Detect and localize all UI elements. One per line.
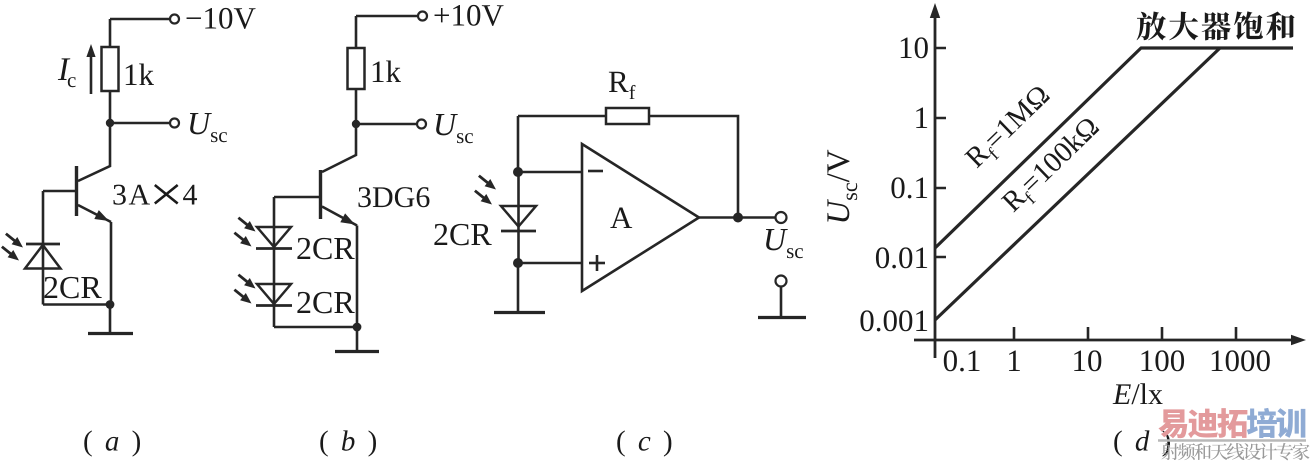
transistor Q2 emitter with arrow [322, 207, 357, 226]
svg-text:( a ): ( a ) [83, 426, 144, 458]
photodiode 2CR upper cathode bar [256, 247, 292, 250]
node: collector output node (panel a) [106, 119, 114, 127]
photodiode 2CR upper (panel b) triangle [257, 227, 291, 247]
transistor Q1 3AX4 base bar [75, 166, 78, 216]
wire: base lead (panel b) [274, 196, 321, 199]
wire: base down to photodiode [42, 191, 45, 305]
wire: op-amp output [699, 216, 776, 219]
svg-text:+10V: +10V [433, 0, 504, 33]
label: 3AX4 transistor type [112, 179, 198, 212]
svg-text:1k: 1k [370, 54, 402, 89]
wire: emitter vertical (panel a) [110, 222, 113, 305]
wire: photodiode to bottom rail (panel a) [43, 303, 110, 306]
transistor Q1 emitter with arrow [78, 205, 111, 222]
svg-text:−10V: −10V [185, 1, 256, 36]
node: emitter/bottom junction (panel b) [353, 323, 362, 332]
watermark tagline RF and antenna design experts [1162, 443, 1310, 460]
svg-text:1: 1 [914, 100, 930, 135]
node: non-inverting input node [513, 258, 523, 268]
photodiode 2CR (panel a) cathode bar [26, 243, 60, 246]
photodiode 2CR (panel c) triangle [501, 206, 536, 227]
node: output/feedback junction [733, 213, 743, 223]
wire: to Usc terminal (panel b) [356, 123, 417, 126]
svg-text:10: 10 [898, 30, 929, 65]
node: collector output node (panel b) [352, 120, 360, 128]
svg-text:( c ): ( c ) [616, 426, 675, 458]
ground (panel b) [335, 327, 379, 352]
ground (panel a) [88, 305, 133, 334]
wire: base down to photodiode 1 [273, 197, 276, 327]
watermark underline [1158, 439, 1306, 442]
transistor Q2 3DG6 base bar [319, 170, 322, 219]
svg-text:2CR: 2CR [296, 284, 355, 320]
svg-text:100: 100 [1139, 343, 1186, 378]
axis: x axis [914, 335, 1306, 345]
svg-text:10: 10 [1072, 343, 1103, 378]
watermark logo yiditou training [1158, 408, 1305, 438]
wire: feedback top wire right [649, 116, 738, 218]
curve Rf=1M with saturation [935, 48, 1293, 248]
terminal: lower output terminal (panel c) [776, 276, 787, 287]
svg-text:0.01: 0.01 [875, 240, 929, 275]
axis: y axis [930, 3, 940, 358]
wire: non-inverting input lead [518, 262, 582, 265]
terminal: Usc output (panel c) [776, 212, 787, 223]
wire: inverting input lead [518, 171, 582, 174]
op-amp plus input sign [589, 255, 605, 271]
light arrows into 2CR (panel c) [475, 176, 496, 205]
node: emitter/bottom junction (panel a) [106, 300, 115, 309]
terminal: -10V supply terminal [170, 15, 179, 24]
resistor 1k (panel b) [348, 48, 365, 89]
light arrows into lower 2CR (panel b) [234, 275, 255, 304]
photodiode 2CR (panel a) triangle [25, 245, 61, 269]
wire: resistor to output node [109, 91, 112, 123]
svg-text:1: 1 [1006, 343, 1022, 378]
resistor 1k (panel a) [102, 47, 119, 91]
wire: top vertical to resistor [109, 19, 112, 47]
wire: left vertical into inverting node [517, 116, 520, 172]
label: amplifier saturation (Chinese) [1137, 11, 1295, 40]
photodiode 2CR (panel c) cathode bar [501, 230, 536, 233]
svg-text:1k: 1k [123, 57, 155, 92]
wire: collector lead (panel b) [322, 124, 356, 172]
light arrows into 2CR (panel a) [2, 234, 23, 261]
wire: feedback top wire left [518, 115, 606, 118]
op-amp U1 triangle [582, 144, 699, 291]
svg-text:A: A [610, 200, 633, 235]
svg-text:E/lx: E/lx [1112, 378, 1163, 411]
svg-text:0.001: 0.001 [859, 303, 929, 338]
ground (panel c left) [494, 263, 545, 313]
current arrow Ic [86, 44, 95, 94]
resistor Rf [606, 108, 649, 124]
svg-text:0.1: 0.1 [890, 170, 929, 205]
terminal: Usc output (panel a) [170, 119, 179, 128]
wire: base lead (panel a) [43, 190, 77, 193]
curve Rf=100k [935, 48, 1220, 320]
wire: collector lead (panel a) [78, 123, 110, 181]
op-amp minus input sign [588, 170, 603, 173]
wire: node to photodiode [517, 172, 520, 263]
wire: to Usc terminal [110, 122, 170, 125]
photodiode 2CR lower (panel b) triangle [257, 284, 291, 304]
svg-text:2CR: 2CR [43, 269, 102, 305]
terminal: Usc output (panel b) [417, 120, 426, 129]
ground (panel c right) [758, 287, 806, 318]
y ticks [935, 48, 946, 257]
svg-text:0.1: 0.1 [943, 343, 982, 378]
svg-text:4: 4 [183, 179, 198, 212]
wire: photodiode to bottom rail (panel b) [274, 326, 357, 329]
svg-text:3DG6: 3DG6 [357, 181, 430, 214]
svg-text:2CR: 2CR [433, 216, 492, 252]
svg-text:3A: 3A [112, 179, 152, 212]
svg-text:( b ): ( b ) [319, 426, 380, 458]
light arrows into upper 2CR (panel b) [234, 218, 255, 247]
svg-text:2CR: 2CR [296, 230, 355, 266]
wire: resistor to node (panel b) [355, 89, 358, 124]
node: inverting input node [513, 167, 523, 177]
wire: emitter vertical (panel b) [356, 226, 359, 328]
svg-text:1000: 1000 [1209, 343, 1271, 378]
x ticks [1014, 327, 1236, 340]
terminal: +10V supply [418, 12, 427, 21]
photodiode 2CR lower cathode bar [256, 304, 292, 307]
wire: panel b top supply wire [356, 16, 418, 48]
wire: panel a top supply wire [110, 18, 170, 21]
